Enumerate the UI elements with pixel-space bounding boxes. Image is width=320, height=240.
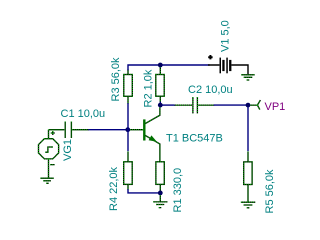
junction base node (125, 127, 130, 132)
svg-text:C1 10,0u: C1 10,0u (61, 108, 106, 120)
ground (VG1) (40, 178, 53, 183)
battery V1 (208, 55, 248, 74)
svg-text:R5 56,0k: R5 56,0k (264, 169, 276, 214)
capacitor C1 (49, 122, 90, 139)
svg-text:R3 56,0k: R3 56,0k (110, 57, 122, 102)
wire R3 to base node (127, 104, 129, 130)
wire R4 bottom to emitter node (128, 190, 160, 193)
wire R2 bottom to collector node (159, 102, 161, 105)
resistor R2 (156, 67, 164, 102)
resistor R3 (124, 70, 133, 104)
svg-text:R4 22,0k: R4 22,0k (108, 166, 120, 211)
junction output node (246, 103, 251, 108)
junction R2 top (158, 63, 163, 68)
junction collector node (158, 103, 163, 108)
capacitor C2 (174, 97, 214, 113)
wire supply rail (128, 65, 209, 70)
svg-text:R1 330,0: R1 330,0 (172, 168, 184, 213)
svg-text:R2 1,0k: R2 1,0k (143, 69, 155, 107)
svg-text:VP1: VP1 (265, 101, 286, 113)
ground (emitter) (153, 195, 167, 207)
resistor R4 (124, 152, 133, 190)
junction emitter node (158, 191, 163, 196)
wire collector node to C2 (163, 104, 174, 106)
svg-text:VG1: VG1 (62, 139, 74, 161)
svg-text:V1 5,0: V1 5,0 (220, 20, 232, 52)
svg-text:C2 10,0u: C2 10,0u (188, 84, 233, 96)
wire base node down to R4 (127, 130, 129, 151)
ground (R5) (241, 202, 255, 208)
wire C2 to output node (214, 104, 248, 106)
wire output node down to R5 (247, 107, 249, 150)
svg-text:T1 BC547B: T1 BC547B (166, 132, 223, 144)
ground (battery) (241, 75, 254, 80)
resistor R1 (156, 162, 164, 191)
resistor R5 (244, 152, 252, 202)
transistor T1 (130, 107, 160, 162)
voltage pin VP1 (250, 100, 260, 110)
wire C1 to base node (89, 129, 126, 131)
voltage generator VG1 (39, 130, 59, 178)
